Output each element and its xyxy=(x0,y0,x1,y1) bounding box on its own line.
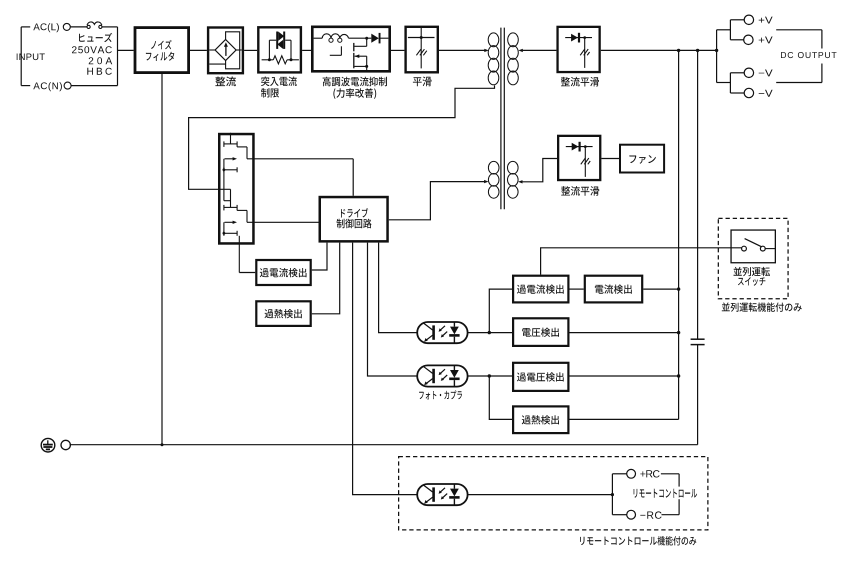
terminal +RC xyxy=(627,469,636,478)
wire xyxy=(312,243,340,314)
fuse F1 xyxy=(87,22,102,29)
inrush resistor xyxy=(262,40,299,64)
voltage detect box xyxy=(513,318,568,346)
label INPUT xyxy=(17,54,45,61)
wire xyxy=(244,49,257,51)
remote bracket right xyxy=(661,474,679,515)
label DC OUTPUT xyxy=(781,52,837,58)
mosfet Q2 xyxy=(218,170,247,236)
smoothing capacitor xyxy=(408,28,435,69)
transformer secondary upper xyxy=(508,33,523,85)
smoothing box xyxy=(406,27,438,73)
wire xyxy=(118,49,134,51)
label AC(N) xyxy=(33,82,62,91)
node +V split xyxy=(715,30,718,83)
label AC(L) xyxy=(33,23,59,32)
label smoothing xyxy=(413,77,432,87)
rectifier bridge diamond xyxy=(209,32,241,69)
wire xyxy=(601,158,619,160)
wire xyxy=(352,159,354,196)
label photo coupler xyxy=(419,390,462,399)
wire xyxy=(190,49,207,51)
label drive control xyxy=(337,208,372,228)
label +V a xyxy=(759,17,773,24)
wire xyxy=(439,49,485,51)
noise filter box xyxy=(135,28,189,73)
PFC inductor xyxy=(314,34,349,43)
wire xyxy=(71,85,117,87)
rect-smooth box L xyxy=(558,136,600,180)
inrush thyristor xyxy=(269,32,291,50)
transformer core xyxy=(501,28,504,210)
rect-smooth cap L xyxy=(581,145,590,177)
current detect box xyxy=(585,276,642,303)
terminal +V a xyxy=(744,15,753,24)
wire xyxy=(238,236,240,273)
label current detect xyxy=(595,285,632,294)
wire xyxy=(161,74,163,445)
label -V b xyxy=(759,90,773,97)
wire xyxy=(601,49,717,51)
label overheat R xyxy=(522,415,559,424)
label overcurrent R xyxy=(517,285,564,294)
terminal AC(N) xyxy=(64,82,71,89)
label overcurrent L xyxy=(260,268,307,277)
wire xyxy=(523,49,557,51)
terminal -V a xyxy=(744,68,753,77)
wire xyxy=(70,26,87,28)
remote bracket xyxy=(612,474,626,515)
rect-smooth diode U xyxy=(565,33,592,43)
label voltage detect xyxy=(522,328,559,337)
wire xyxy=(468,332,512,334)
wire xyxy=(570,374,681,377)
wire xyxy=(379,243,418,333)
parallel switch box xyxy=(731,230,775,263)
label inrush xyxy=(261,77,297,98)
label fan xyxy=(629,155,656,164)
node PFC drain xyxy=(365,37,368,40)
transformer primary upper xyxy=(484,33,499,85)
wire xyxy=(570,418,679,420)
photo coupler PC1 xyxy=(417,322,467,343)
label overvoltage xyxy=(517,372,564,381)
label noise filter xyxy=(146,40,174,61)
label overheat L xyxy=(265,309,302,318)
transformer secondary lower xyxy=(508,161,523,198)
photo coupler PC3 xyxy=(417,484,467,505)
overvoltage detect box xyxy=(513,363,568,391)
label remote control xyxy=(630,487,699,500)
wire xyxy=(302,49,311,51)
rect-smooth cap U xyxy=(580,36,589,68)
wire xyxy=(570,288,584,290)
label rect-smooth U xyxy=(561,77,599,87)
earth symbol xyxy=(41,438,55,452)
wire branch to overcurrent R xyxy=(488,289,512,334)
label +RC xyxy=(640,470,659,477)
terminal AC(L) xyxy=(63,23,70,30)
fan box xyxy=(620,145,664,173)
label remote only xyxy=(580,536,696,546)
inrush limiter box xyxy=(258,27,301,72)
label parallel only xyxy=(722,302,802,311)
terminal earth xyxy=(61,440,70,449)
wire drive to primary xyxy=(389,182,485,220)
parallel dashed box xyxy=(718,218,788,298)
label +V b xyxy=(759,37,773,44)
wire xyxy=(353,243,418,495)
overcurrent detect box L xyxy=(256,260,310,285)
drive control box xyxy=(320,197,388,241)
wire xyxy=(717,73,745,93)
photo coupler PC2 xyxy=(417,365,467,386)
overcurrent detect box R xyxy=(513,276,568,303)
label PFC xyxy=(323,77,387,99)
wire xyxy=(717,20,745,40)
rect-smooth box U xyxy=(558,27,600,72)
wire xyxy=(468,493,614,496)
rectifier box xyxy=(208,28,243,74)
capacitor C out xyxy=(691,339,705,344)
wire xyxy=(570,331,681,334)
bus line 2 xyxy=(696,49,699,445)
label parallel switch xyxy=(734,267,770,286)
terminal -RC xyxy=(627,510,636,519)
overheat detect box R xyxy=(513,406,568,433)
wire primary bottom tap xyxy=(189,86,495,190)
wire branch to overheat R xyxy=(488,374,512,419)
wire secondary lower tap xyxy=(522,159,557,182)
node INPUT bracket xyxy=(21,27,30,86)
wire xyxy=(391,49,404,51)
label fuse value xyxy=(72,33,112,75)
terminal +V b xyxy=(744,35,753,44)
wire xyxy=(349,37,372,39)
wire xyxy=(368,243,418,376)
PFC mosfet Q xyxy=(330,38,368,71)
label -RC xyxy=(640,511,661,518)
wire xyxy=(312,243,327,270)
label rect-smooth L xyxy=(561,186,599,196)
PFC box xyxy=(312,27,389,72)
wire xyxy=(468,375,512,377)
wire xyxy=(643,287,680,290)
terminal -V b xyxy=(744,88,753,97)
wire xyxy=(247,158,353,160)
wire xyxy=(247,221,319,223)
label rectifier xyxy=(215,77,236,87)
transformer primary lower xyxy=(484,161,499,198)
wire xyxy=(541,248,742,275)
mosfet Q1 xyxy=(223,133,248,173)
bus line 1 xyxy=(677,49,680,420)
switch SW xyxy=(742,239,776,251)
rect-smooth diode L xyxy=(566,142,593,152)
PFC diode xyxy=(371,33,388,44)
remote dashed box xyxy=(399,457,708,530)
DC OUTPUT bracket xyxy=(776,30,822,83)
wire xyxy=(117,27,119,86)
label -V a xyxy=(759,70,773,77)
overheat detect box L xyxy=(256,301,310,326)
wire xyxy=(239,272,255,274)
wire xyxy=(102,26,118,28)
switching transistor box xyxy=(219,134,253,243)
ground wire xyxy=(70,443,698,446)
